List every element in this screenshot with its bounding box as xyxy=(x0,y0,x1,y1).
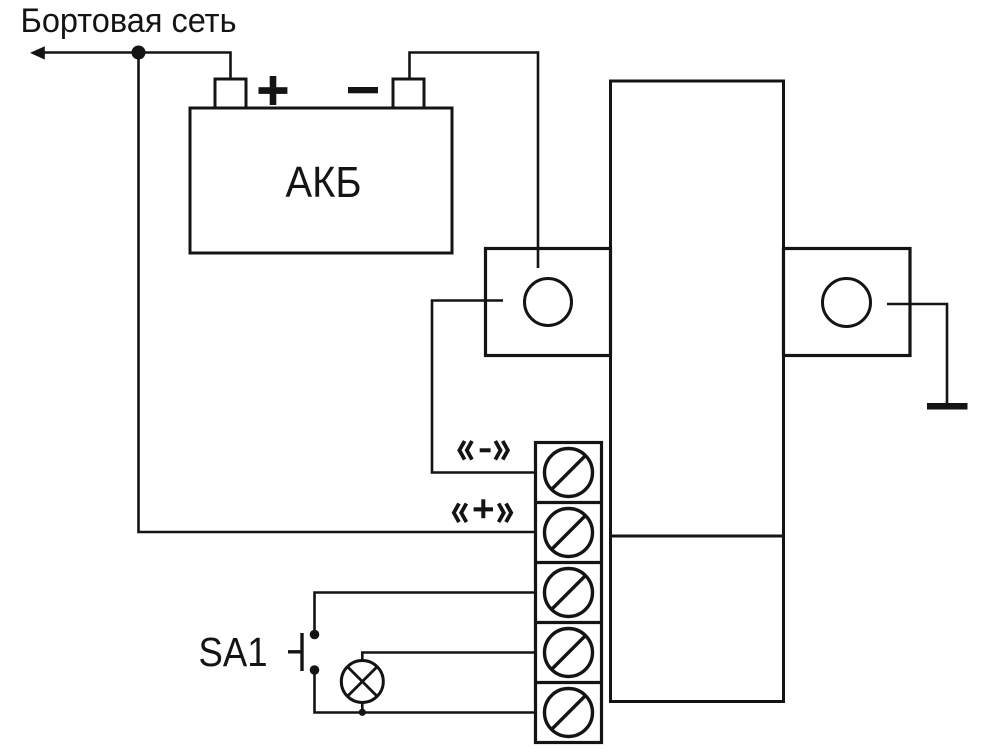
wire: junction to terminal 2 «+» xyxy=(139,53,535,533)
switch SA1 bottom contact dot xyxy=(310,665,320,675)
wire: switch SA1 bottom contact to terminal 5 xyxy=(315,671,535,713)
relay left mounting lug xyxy=(486,249,611,356)
wire: battery − post to relay left lug xyxy=(410,53,539,269)
wire: right lug to chassis ground xyxy=(887,304,947,403)
label: «+» xyxy=(454,504,511,523)
screw terminal 3 xyxy=(545,569,593,617)
label: − (battery polarity) xyxy=(348,87,378,93)
relay right mounting lug xyxy=(784,249,911,356)
relay right lug hole xyxy=(823,279,871,327)
relay left lug hole xyxy=(525,279,572,326)
lamp HL1 (indicator) xyxy=(341,661,383,703)
svg-text:АКБ: АКБ xyxy=(286,158,362,207)
battery body АКБ xyxy=(190,108,452,253)
switch SA1 actuator bar xyxy=(300,633,303,671)
wire: on-board network feed (horizontal, to battery + post) xyxy=(42,53,231,80)
svg-text:Бортовая сеть: Бортовая сеть xyxy=(21,2,237,40)
arrowhead: to on-board network xyxy=(30,46,45,59)
screw terminal 2 xyxy=(545,509,593,557)
relay body xyxy=(611,81,784,702)
switch SA1 top contact dot xyxy=(310,630,320,640)
screw terminal 5 xyxy=(545,689,593,737)
screw terminal 4 xyxy=(545,629,593,677)
wire: lamp top to terminal 4 xyxy=(362,653,534,661)
wire: switch SA1 top contact to terminal 3 xyxy=(315,593,535,634)
wire: lamp bottom stub xyxy=(361,703,364,713)
label: «-» xyxy=(459,441,508,460)
terminal block body (5 screw cells) xyxy=(536,443,602,743)
screw terminal 1 xyxy=(545,449,593,497)
switch SA1 actuator tick xyxy=(288,650,302,653)
wire: relay left lug to terminal 1 «-» xyxy=(432,301,534,473)
label: + (battery polarity) xyxy=(259,76,288,105)
ground symbol (chassis) xyxy=(927,403,968,410)
relay internal divider xyxy=(611,535,784,538)
svg-text:SA1: SA1 xyxy=(199,629,268,675)
junction: battery + tap xyxy=(132,46,146,60)
junction: lamp to terminal-5 wire xyxy=(359,709,366,716)
battery positive terminal post xyxy=(215,79,246,108)
battery negative terminal post xyxy=(393,79,424,108)
